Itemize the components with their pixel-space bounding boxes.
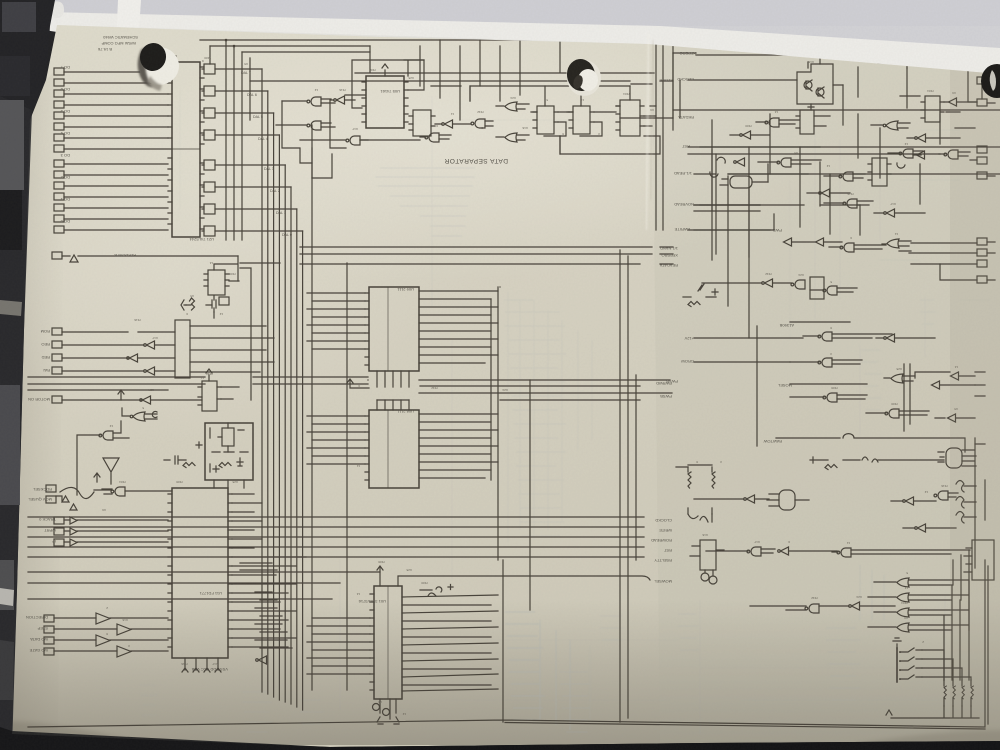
dark bottom band: [0, 727, 1000, 750]
VSS arrow mid: [118, 390, 124, 400]
rails at y247-264: [300, 247, 673, 264]
frame L bottom: [28, 560, 988, 729]
NAND U20 b: [307, 121, 321, 130]
OR gate U14 w bubble: [133, 412, 145, 421]
ghost block B column: [505, 292, 592, 542]
............ RAM U08 2111 ............: [307, 400, 498, 488]
ground tris: [56, 496, 77, 510]
rail 1/1-READ: [694, 173, 1000, 175]
punch hole A reinforcement ring: [139, 47, 179, 85]
IC U21 74LS244 buffer bank: [172, 62, 200, 237]
resistor bank: [886, 638, 979, 718]
resistor R33 with +5: [190, 298, 195, 310]
inverter U10 right: [903, 497, 914, 505]
punch hole B dark core: [572, 74, 585, 90]
bias stubs: [808, 56, 843, 110]
label K1390B wire: [757, 322, 850, 446]
paper shading: top glow: [0, 0, 850, 440]
CE OD bottom stubs: [377, 371, 409, 387]
wire TSA: [229, 280, 239, 282]
rail KLOCK long: [250, 80, 673, 82]
XOR row 3: [897, 608, 909, 617]
............ resistors R2 R3 near center ............: [676, 465, 724, 584]
VSS top stub: [377, 566, 383, 586]
heavy verticals center-right: [620, 250, 636, 722]
long return wires: [560, 106, 660, 154]
TSA wire: [221, 387, 239, 399]
right pins fan to A-bus: [419, 291, 498, 363]
punch hole B white centre: [578, 69, 598, 91]
XOR row 4: [897, 623, 909, 632]
rail RST: [688, 147, 1000, 154]
FF U6 7474: [202, 381, 217, 411]
torn white bit on left edge: [0, 588, 14, 606]
OR U21 a: [505, 102, 517, 111]
U21 pin stubs right: [200, 67, 204, 229]
labels column stubs: [636, 517, 644, 557]
wire RLKDONTA run: [62, 255, 238, 257]
wires weaving: [694, 162, 820, 206]
............ right bottom cluster ............: [694, 438, 994, 718]
rail +12V: [694, 338, 803, 362]
S-curve wire from J pins: [60, 487, 112, 498]
............ long horizontal rails upper right ............: [250, 53, 1000, 257]
left return loop: [276, 101, 312, 163]
NAND U25: [765, 118, 779, 127]
right edge connector box: [972, 540, 994, 580]
ghost block D bottom left: [242, 692, 324, 732]
NAND U20 c: [471, 119, 485, 128]
vertical riser to U22: [214, 256, 238, 318]
driver 7438 c: [96, 635, 168, 646]
curl inductor symbols: [956, 481, 964, 524]
+5 rail bottom: [886, 706, 979, 718]
misc verticals: [712, 150, 749, 338]
driver 7438 a: [96, 613, 168, 624]
pins TRACK0/WPRT/IP with buffers: [54, 517, 168, 546]
wire to FF U6: [151, 399, 202, 401]
ghost block F bottom right: [826, 565, 884, 700]
............ RAM U09 2111 ............: [28, 287, 640, 400]
NAND U1: [837, 548, 851, 557]
white sheet edge behind the schematic page: [44, 12, 1000, 95]
dark top-left corner of photo: [0, 0, 55, 122]
FDDATA FDCLK labels wires: [311, 148, 313, 178]
capacitor C9: [212, 296, 216, 312]
............ DAL tag stubs lower bus ............: [240, 563, 292, 648]
top rail TTB: [355, 40, 654, 73]
scattered tiny pin-number marks: [168, 0, 541, 63]
bottom-left drive interface: pins and line drivers: [44, 613, 168, 657]
ghost block E right of U01: [600, 614, 698, 650]
NAND U16c: [885, 409, 899, 418]
............ top right clock generator ............: [797, 52, 907, 125]
RAWTOW squiggle wire: [776, 434, 965, 452]
rail RKDATA: [620, 110, 1000, 118]
bottom row: inverter 7416: [762, 279, 773, 287]
............ right cluster rows y190-300 ............: [683, 150, 995, 338]
buffer U17: [734, 158, 745, 166]
pin boxes 2E 2B: [977, 146, 987, 153]
pin boxes ROM/REO/RED/RAI: [52, 328, 62, 335]
wires into U11: [214, 480, 244, 488]
right edge vertical bus joins: [953, 438, 985, 630]
+5 mark: [196, 442, 202, 448]
............ left mid small logic (motor/drive selects) ............: [52, 252, 280, 400]
crystal Y1: [222, 428, 234, 446]
counter U05 74161: [366, 76, 404, 128]
IC U11 FD1771 floppy controller: [172, 488, 228, 658]
............ crystal oscillator box and U11 controller ............: [164, 40, 560, 488]
pin MOVQUSEL: [46, 496, 56, 503]
NAND U13: [747, 547, 761, 556]
inverter U17b: [740, 131, 751, 139]
VSS arrow: [347, 379, 369, 388]
left pins: [370, 594, 374, 690]
cap box C9: [219, 297, 229, 305]
inverter U16 7438: [140, 396, 151, 404]
NOR U21: [886, 121, 898, 130]
NAND U17a: [818, 332, 832, 341]
left pins to bus: [365, 293, 369, 365]
NOR U26: [891, 374, 903, 383]
buffer pair row y240: [784, 238, 792, 246]
full width control rails: [28, 517, 636, 557]
ghost marks top right: [880, 130, 990, 300]
ghost paragraph block A: [375, 168, 475, 236]
............ right label column text (tiny, upside down) ............: [651, 51, 794, 584]
vertical bracket: [904, 364, 910, 431]
outputs to U23: [138, 332, 175, 371]
node dots on bus: [226, 40, 234, 46]
AC AD tags: [152, 411, 157, 417]
right-of-crease slightly darker tone: [652, 44, 1000, 742]
NAND U4 multi: [779, 490, 795, 510]
NAND U16 b: [944, 150, 958, 159]
33pF cap left: [164, 456, 186, 464]
dashed enclosure with crystal: [205, 423, 253, 480]
NAND: [934, 491, 948, 500]
vss at mgw: [94, 473, 100, 482]
transistor Q1: [804, 81, 812, 89]
NAND U15 4-input: [946, 448, 962, 468]
inverter big MGW: [103, 458, 119, 484]
bottom stubs with test points: [380, 699, 396, 719]
buffer U12 b: [144, 341, 155, 349]
wire down to cluster: [843, 67, 907, 125]
FF U09 7474: [537, 106, 554, 134]
extra right cluster wiring: [700, 147, 860, 205]
buffer to pin: [949, 98, 957, 106]
resistor network RN1 47 OHM: [944, 686, 946, 699]
DIP switch ladder S1: [900, 648, 922, 679]
input wires: [62, 332, 144, 371]
white tab 1: [116, 0, 141, 46]
AA node oval: [897, 163, 905, 168]
transistor Q2: [816, 88, 824, 96]
input stubs A1B: [962, 444, 985, 466]
NOR U24 big: [887, 239, 899, 248]
buffer tri: [915, 524, 926, 532]
NAND U20 a: [307, 97, 321, 106]
XOR row 2: [897, 593, 909, 602]
FF U22 74175 small: [413, 110, 431, 136]
2W curl symbols: [862, 457, 944, 462]
driver 7438 b: [117, 624, 168, 635]
............ bottom center IC U01 3705/3716 ............: [307, 566, 650, 724]
white tab 2: [51, 1, 64, 18]
pin box N: [977, 99, 987, 106]
gate input wires: [122, 408, 157, 419]
NAND U16 top: [883, 52, 897, 61]
NAND U9: [839, 172, 853, 181]
bottom-right corner darkening: [750, 730, 1000, 750]
R19 resistor VCC: [683, 296, 691, 298]
wire to inverter: [62, 399, 142, 401]
pin J6 MOTOR ON: [52, 396, 62, 403]
pin box M: [977, 77, 987, 84]
NAND U4 7402: [111, 487, 125, 496]
ghost title block lines lower right: [750, 180, 790, 340]
extra DS cluster wiring: [420, 40, 520, 120]
rail CLOCKD: [631, 53, 797, 118]
buffer pair: [932, 381, 940, 389]
terminator resistor packs right of U21: [204, 64, 215, 236]
connector J5 pin boxes column: [54, 68, 64, 233]
ground at switch ladder: [893, 638, 901, 648]
NAND U5B: [777, 158, 791, 167]
driver 7438 d: [117, 646, 168, 657]
............ right cluster: read logic ............: [694, 46, 995, 206]
NOR U14b: [99, 431, 113, 440]
inverter: [744, 495, 755, 503]
buffer U12 d: [144, 367, 155, 375]
A-bus vertical joining RAM fans: [491, 287, 498, 560]
inverter U10: [915, 134, 926, 142]
............ left edge connector J5 and buffers U21 ............: [168, 62, 204, 237]
FF U09 b: [573, 106, 590, 134]
ghost marks right mid: [862, 300, 936, 410]
stubs AB AC AD: [915, 372, 985, 396]
bus risers from U21 to top rail: [210, 40, 250, 240]
XOR row 1: [897, 578, 909, 587]
NAND U17c: [823, 393, 837, 402]
ground tri: [70, 255, 78, 262]
wire returns under DS: [312, 86, 560, 178]
punch hole B black rim: [565, 57, 597, 93]
wires mid right: [860, 96, 975, 235]
top-right wire to MOWSEL: [398, 576, 650, 586]
hex buffer U23: [175, 320, 190, 378]
output to U11: [102, 489, 172, 494]
right edge shading: [950, 70, 1000, 742]
rail XFPSRO: [673, 53, 907, 68]
gate input wires: [282, 99, 335, 127]
............ right mid cluster y320-470 ............: [694, 322, 985, 470]
U11 left pin stubs: [168, 494, 172, 647]
rail PWB: [694, 214, 774, 230]
inverter right: [884, 334, 895, 342]
FF U6 7474: [925, 96, 940, 122]
+5 R30 1K: [810, 457, 828, 463]
OR U21 b: [505, 133, 517, 142]
FF box: [810, 277, 824, 299]
pin J7 MLANDAH: [52, 252, 62, 259]
top stubs joining U09: [377, 400, 409, 410]
pin RDCKSEL: [46, 485, 56, 492]
transistor box U5: [700, 540, 716, 570]
pin box K7: [977, 172, 987, 179]
buffer out: [917, 151, 925, 159]
+12 test points: [420, 585, 453, 593]
transistor circuit box: [797, 64, 833, 104]
buffer MUTTED: [778, 547, 789, 555]
paper shading: left edge: [12, 60, 66, 736]
dark photo edge: left margin strips: [0, 96, 32, 750]
buffer U12 c: [127, 354, 138, 362]
NAND U20d: [425, 133, 439, 142]
punch hole A black center: [137, 41, 168, 74]
DATA SEPARATOR title (upside down): [444, 157, 508, 164]
feedback frame around U05: [352, 60, 424, 108]
punch hole A dark smear: [138, 48, 153, 87]
VSS stub: [206, 369, 212, 381]
NAND U17b: [818, 358, 832, 367]
+5 arrow: [181, 300, 186, 310]
pin box T: [977, 276, 987, 283]
NAND U18: [843, 199, 857, 208]
power arrows: [182, 668, 221, 672]
U11 bottom power stubs: [185, 658, 218, 670]
grey sheet band across the top: [0, 0, 1000, 60]
NAND U10 b: [899, 149, 913, 158]
NAND box U24 rounded: [730, 176, 752, 188]
inverter: [819, 189, 830, 197]
upper control rails left span: [28, 377, 368, 390]
U11 right pin stubs: [228, 494, 232, 647]
IC U22 74LS393: [208, 270, 225, 295]
inverter pair lower: [805, 604, 819, 613]
inverter U19: [334, 96, 345, 104]
AD ovals pair: [710, 157, 725, 177]
wires J5 to U21: [64, 72, 172, 230]
label MOSEL wire: [790, 383, 867, 385]
paper shading: bottom: [12, 600, 1000, 745]
rail PWRWD pair: [419, 380, 672, 393]
ghost faint horizontal lines: [430, 120, 940, 700]
nor wires: [77, 421, 129, 495]
wires U21 to DAL stubs with labels: [202, 69, 303, 231]
left pins: [365, 416, 369, 480]
inverter U19 b: [442, 120, 453, 128]
wire INST down right: [240, 263, 280, 400]
right pin fan to A-bus: [402, 595, 498, 691]
ghost show-through layer (print on reverse side, bluish): [140, 90, 990, 735]
pin boxes right DATA/STEP: [977, 238, 987, 245]
ghost faint vertical lines (show-through wires): [340, 96, 945, 735]
FF U7 mid: [872, 158, 887, 186]
rail NOVREAD: [694, 205, 804, 211]
FF U08 74175: [620, 100, 640, 136]
interconnect wires: [544, 112, 656, 136]
NAND U24b: [823, 286, 837, 295]
U21 pin stubs left: [168, 72, 172, 224]
R22 C11 parts: [212, 451, 248, 453]
crease highlight: [646, 34, 649, 230]
left/top tiny labels (upside down): [26, 35, 414, 672]
vss tick: [382, 64, 388, 76]
buffer tri: [884, 209, 895, 217]
............ central DAL bus verticals ............: [241, 69, 347, 710]
top bus rails: [168, 40, 560, 62]
NAND U5: [840, 243, 854, 252]
right pins fan: [419, 414, 498, 478]
NAND U19b: [346, 136, 360, 145]
ghost block C bottom center: [505, 612, 570, 730]
punch hole B reinforcement ring: [567, 60, 601, 96]
punch hole C at right edge: [981, 64, 1000, 98]
NAND U04: [791, 280, 805, 289]
FF box U25b: [800, 110, 814, 134]
rail AWRITE: [688, 229, 770, 231]
............ data separator section ............: [276, 40, 660, 178]
outputs right to DAL bus: [190, 326, 274, 372]
U11 right side wires to DAL bus: [232, 494, 306, 647]
buffer: [948, 414, 956, 422]
buffer U12 a: [256, 656, 267, 664]
wires switch to resistors: [922, 650, 971, 680]
